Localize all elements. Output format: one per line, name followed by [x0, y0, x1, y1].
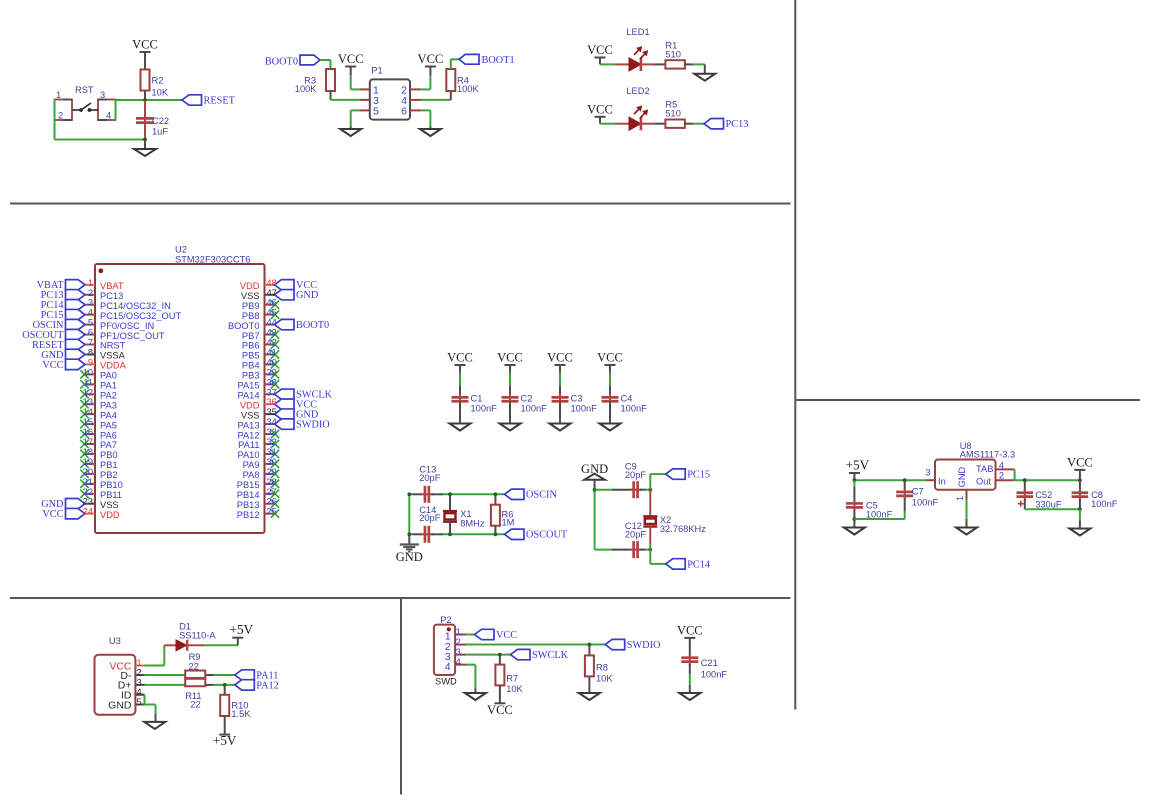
svg-text:PB2: PB2	[100, 470, 118, 480]
svg-text:41: 41	[267, 347, 277, 357]
svg-text:PB9: PB9	[242, 301, 260, 311]
svg-text:GND: GND	[296, 290, 319, 301]
svg-text:VCC: VCC	[547, 351, 573, 365]
svg-text:VCC: VCC	[487, 703, 513, 717]
svg-text:44: 44	[267, 318, 277, 328]
svg-text:PC15: PC15	[687, 470, 710, 481]
svg-text:PB10: PB10	[100, 480, 123, 490]
svg-text:35: 35	[267, 407, 277, 417]
svg-text:GND: GND	[957, 466, 967, 487]
svg-text:VCC: VCC	[677, 623, 703, 637]
svg-text:U3: U3	[109, 636, 121, 646]
svg-text:VCC: VCC	[597, 351, 623, 365]
svg-text:PB8: PB8	[242, 311, 260, 321]
svg-text:VCC: VCC	[132, 38, 158, 52]
svg-text:PC13: PC13	[726, 119, 749, 130]
svg-text:PB11: PB11	[100, 490, 122, 500]
svg-text:4: 4	[106, 111, 111, 121]
svg-text:21: 21	[83, 477, 93, 487]
svg-text:100nF: 100nF	[866, 509, 893, 519]
svg-text:3: 3	[100, 90, 105, 100]
svg-text:1: 1	[56, 90, 61, 100]
svg-text:PA11: PA11	[238, 440, 259, 450]
svg-text:100nF: 100nF	[521, 404, 548, 414]
svg-text:25: 25	[267, 507, 277, 517]
svg-text:20pF: 20pF	[625, 470, 647, 480]
svg-text:SWD: SWD	[435, 677, 457, 687]
svg-text:PB3: PB3	[242, 371, 260, 381]
svg-text:PA1: PA1	[100, 381, 117, 391]
svg-text:31: 31	[267, 447, 277, 457]
svg-text:3: 3	[88, 298, 93, 308]
svg-text:VSSA: VSSA	[100, 351, 126, 361]
svg-text:PA10: PA10	[237, 450, 259, 460]
svg-text:PB14: PB14	[237, 490, 260, 500]
svg-text:5: 5	[137, 697, 142, 707]
svg-text:32.768KHz: 32.768KHz	[660, 524, 706, 534]
svg-text:VBAT: VBAT	[100, 281, 124, 291]
svg-text:GND: GND	[581, 462, 608, 476]
svg-text:PC13: PC13	[100, 291, 123, 301]
svg-text:10: 10	[83, 367, 93, 377]
svg-text:30: 30	[267, 457, 277, 467]
svg-text:510: 510	[665, 49, 681, 59]
svg-text:4: 4	[999, 461, 1004, 471]
svg-text:20: 20	[83, 467, 93, 477]
svg-text:15: 15	[83, 417, 93, 427]
svg-text:100K: 100K	[457, 84, 480, 94]
svg-text:OSCIN: OSCIN	[526, 490, 557, 501]
svg-text:PA13: PA13	[237, 420, 259, 430]
svg-text:VSS: VSS	[100, 500, 119, 510]
svg-text:39: 39	[267, 367, 277, 377]
svg-text:PB12: PB12	[237, 510, 260, 520]
svg-text:AMS1117-3.3: AMS1117-3.3	[960, 449, 1015, 459]
svg-text:1uF: 1uF	[152, 127, 168, 137]
svg-text:PB6: PB6	[242, 341, 260, 351]
svg-text:45: 45	[267, 308, 277, 318]
svg-text:12: 12	[83, 387, 93, 397]
svg-text:BOOT0: BOOT0	[228, 321, 260, 331]
svg-text:27: 27	[267, 487, 277, 497]
svg-text:VDD: VDD	[240, 400, 260, 410]
svg-text:3: 3	[137, 677, 142, 687]
svg-text:46: 46	[267, 298, 277, 308]
svg-text:C3: C3	[571, 394, 583, 404]
svg-text:22: 22	[189, 662, 199, 672]
svg-text:VCC: VCC	[587, 43, 613, 57]
svg-text:100K: 100K	[295, 84, 318, 94]
svg-text:PB5: PB5	[242, 351, 260, 361]
svg-text:GND: GND	[396, 550, 423, 564]
svg-text:42: 42	[267, 338, 277, 348]
svg-text:4: 4	[445, 662, 451, 673]
svg-text:20pF: 20pF	[419, 473, 441, 483]
svg-text:STM32F303CCT6: STM32F303CCT6	[175, 255, 250, 265]
svg-text:VCC: VCC	[42, 509, 63, 520]
svg-text:PB7: PB7	[242, 331, 260, 341]
svg-text:33: 33	[267, 427, 277, 437]
svg-text:+5V: +5V	[846, 458, 870, 473]
svg-text:14: 14	[83, 407, 93, 417]
svg-text:+5V: +5V	[230, 622, 254, 637]
svg-text:PF1/OSC_OUT: PF1/OSC_OUT	[100, 331, 165, 341]
svg-text:BOOT0: BOOT0	[296, 320, 329, 331]
svg-text:34: 34	[267, 417, 277, 427]
svg-text:32: 32	[267, 437, 277, 447]
svg-text:C22: C22	[152, 116, 169, 126]
svg-text:PA2: PA2	[100, 390, 117, 400]
svg-text:PA14: PA14	[237, 390, 259, 400]
svg-text:X1: X1	[460, 509, 471, 519]
svg-text:PA7: PA7	[100, 440, 117, 450]
svg-text:2: 2	[58, 111, 63, 121]
svg-text:VCC: VCC	[1067, 455, 1093, 469]
svg-text:1: 1	[955, 496, 965, 501]
svg-text:C1: C1	[471, 394, 483, 404]
svg-text:VCC: VCC	[42, 360, 63, 371]
svg-text:19: 19	[83, 457, 93, 467]
svg-text:Out: Out	[976, 476, 991, 486]
svg-text:BOOT0: BOOT0	[265, 57, 298, 68]
svg-text:38: 38	[267, 377, 277, 387]
svg-text:40: 40	[267, 357, 277, 367]
svg-text:4: 4	[456, 657, 461, 667]
svg-text:VCC: VCC	[447, 351, 473, 365]
svg-text:VDDA: VDDA	[100, 361, 127, 371]
svg-text:LED1: LED1	[626, 27, 649, 37]
svg-text:28: 28	[267, 477, 277, 487]
svg-text:PA8: PA8	[243, 470, 260, 480]
svg-text:100nF: 100nF	[621, 404, 648, 414]
svg-text:6: 6	[401, 106, 407, 118]
svg-text:LED2: LED2	[626, 86, 649, 96]
svg-text:PB1: PB1	[100, 460, 118, 470]
svg-text:100nF: 100nF	[571, 404, 598, 414]
svg-text:+5V: +5V	[213, 733, 237, 748]
svg-text:2: 2	[137, 668, 142, 678]
svg-text:100nF: 100nF	[1091, 499, 1118, 509]
svg-text:C7: C7	[912, 487, 924, 497]
svg-text:SWCLK: SWCLK	[532, 650, 569, 661]
svg-text:VSS: VSS	[241, 291, 260, 301]
svg-text:PA6: PA6	[100, 430, 117, 440]
svg-text:22: 22	[83, 487, 93, 497]
svg-text:8MHz: 8MHz	[460, 519, 485, 529]
svg-text:GND: GND	[108, 699, 132, 711]
svg-text:100nF: 100nF	[701, 669, 728, 679]
svg-text:10K: 10K	[152, 88, 169, 98]
svg-text:510: 510	[665, 109, 681, 119]
svg-text:PF0/OSC_IN: PF0/OSC_IN	[100, 321, 154, 331]
svg-text:3: 3	[925, 468, 930, 478]
svg-text:1.5K: 1.5K	[231, 709, 251, 719]
svg-text:23: 23	[83, 497, 93, 507]
svg-text:10K: 10K	[506, 684, 523, 694]
svg-text:29: 29	[267, 467, 277, 477]
svg-text:9: 9	[88, 357, 93, 367]
svg-text:PA3: PA3	[100, 400, 117, 410]
svg-text:4: 4	[88, 308, 93, 318]
svg-text:18: 18	[83, 447, 93, 457]
svg-text:3: 3	[456, 647, 461, 657]
svg-text:PA0: PA0	[100, 371, 117, 381]
svg-text:11: 11	[83, 377, 93, 387]
svg-text:PC15/OSC32_OUT: PC15/OSC32_OUT	[100, 311, 181, 321]
svg-text:PB4: PB4	[242, 361, 260, 371]
svg-text:PC14: PC14	[687, 559, 710, 570]
svg-text:8: 8	[88, 347, 93, 357]
svg-text:20pF: 20pF	[625, 529, 647, 539]
svg-text:5: 5	[88, 318, 93, 328]
svg-text:VCC: VCC	[587, 102, 613, 116]
svg-text:37: 37	[267, 387, 277, 397]
svg-text:VCC: VCC	[497, 351, 523, 365]
svg-text:SS110-A: SS110-A	[179, 631, 216, 641]
svg-text:1: 1	[88, 278, 93, 288]
svg-text:C21: C21	[701, 658, 718, 668]
svg-text:2: 2	[88, 288, 93, 298]
svg-text:SWDIO: SWDIO	[627, 640, 661, 651]
svg-text:PB15: PB15	[237, 480, 260, 490]
svg-text:1: 1	[137, 658, 142, 668]
svg-text:10K: 10K	[596, 674, 613, 684]
svg-text:VCC: VCC	[418, 52, 444, 66]
svg-text:4: 4	[137, 687, 142, 697]
svg-text:RST: RST	[75, 85, 94, 95]
svg-text:OSCOUT: OSCOUT	[526, 530, 568, 541]
svg-text:NRST: NRST	[100, 341, 126, 351]
svg-text:16: 16	[83, 427, 93, 437]
svg-text:47: 47	[267, 288, 277, 298]
svg-text:C2: C2	[521, 394, 533, 404]
svg-text:100nF: 100nF	[471, 404, 498, 414]
svg-text:In: In	[938, 476, 946, 486]
svg-text:P2: P2	[440, 615, 451, 625]
svg-text:5: 5	[373, 106, 379, 118]
svg-text:R7: R7	[506, 674, 518, 684]
svg-text:20pF: 20pF	[419, 513, 441, 523]
svg-text:RESET: RESET	[204, 95, 236, 106]
svg-text:2: 2	[456, 637, 461, 647]
svg-text:PA9: PA9	[243, 460, 260, 470]
svg-text:TAB: TAB	[976, 464, 993, 474]
svg-text:U2: U2	[175, 245, 187, 255]
svg-text:C52: C52	[1035, 490, 1052, 500]
svg-text:43: 43	[267, 328, 277, 338]
svg-text:PA12: PA12	[237, 430, 259, 440]
svg-text:24: 24	[83, 507, 93, 517]
svg-text:1M: 1M	[502, 518, 515, 528]
svg-text:VCC: VCC	[496, 630, 517, 641]
svg-text:PA4: PA4	[100, 410, 117, 420]
svg-text:17: 17	[83, 437, 93, 447]
svg-text:VCC: VCC	[338, 52, 364, 66]
svg-text:PB0: PB0	[100, 450, 118, 460]
svg-text:22: 22	[190, 700, 200, 710]
svg-text:SWDIO: SWDIO	[296, 420, 330, 431]
svg-text:7: 7	[88, 338, 93, 348]
svg-text:P1: P1	[371, 66, 382, 76]
svg-text:36: 36	[267, 397, 277, 407]
svg-text:1: 1	[456, 627, 461, 637]
svg-text:R8: R8	[596, 663, 608, 673]
svg-text:PA15: PA15	[237, 381, 259, 391]
svg-text:VDD: VDD	[240, 281, 260, 291]
svg-text:VSS: VSS	[241, 410, 260, 420]
svg-text:6: 6	[88, 328, 93, 338]
svg-text:VDD: VDD	[100, 510, 120, 520]
svg-text:R9: R9	[189, 652, 201, 662]
svg-text:100nF: 100nF	[912, 498, 939, 508]
svg-text:330uF: 330uF	[1035, 500, 1062, 510]
svg-text:48: 48	[267, 278, 277, 288]
svg-text:PA5: PA5	[100, 420, 117, 430]
svg-text:13: 13	[83, 397, 93, 407]
svg-text:PB13: PB13	[237, 500, 260, 510]
svg-text:C4: C4	[621, 394, 633, 404]
svg-text:BOOT1: BOOT1	[482, 55, 515, 66]
svg-text:PC14/OSC32_IN: PC14/OSC32_IN	[100, 301, 171, 311]
svg-text:R2: R2	[152, 76, 164, 86]
svg-text:PA12: PA12	[256, 680, 279, 691]
svg-text:26: 26	[267, 497, 277, 507]
svg-text:2: 2	[999, 471, 1004, 481]
